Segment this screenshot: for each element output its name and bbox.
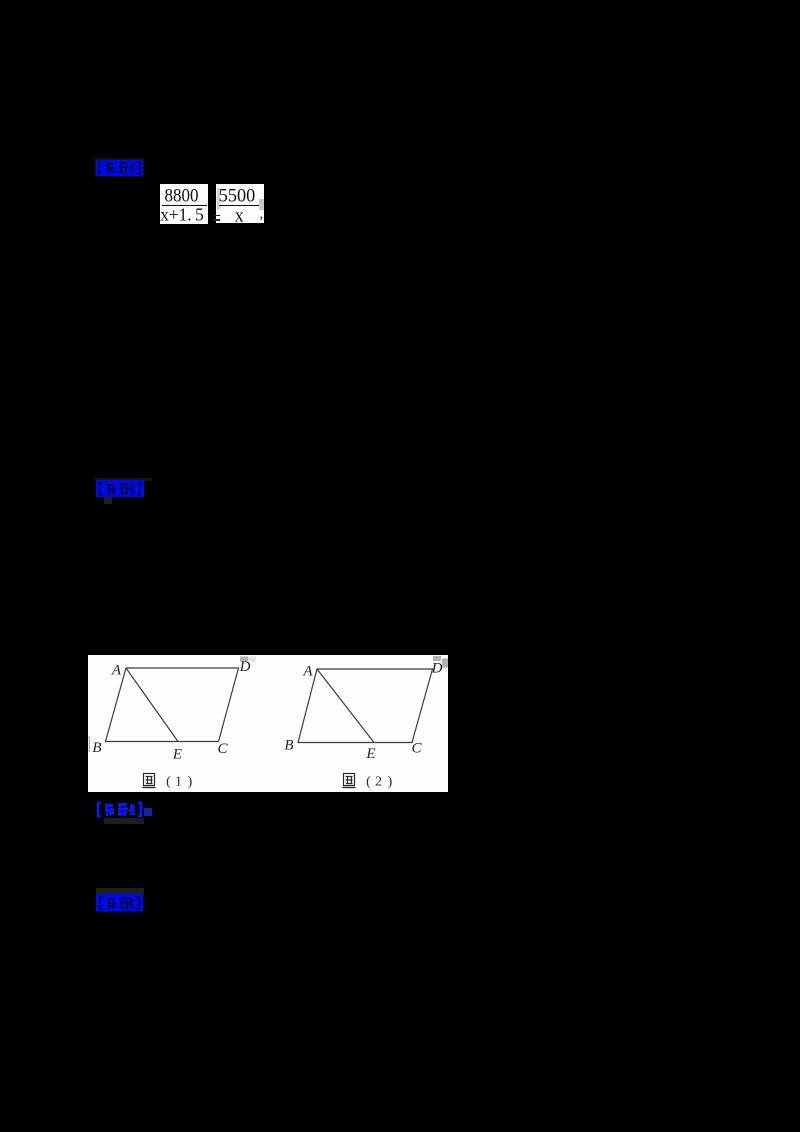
- svg-text:E: E: [365, 746, 375, 762]
- svg-text:2: 2: [375, 775, 382, 790]
- svg-text:1: 1: [175, 775, 182, 790]
- svg-text:A: A: [111, 663, 122, 679]
- svg-text:E: E: [172, 747, 182, 763]
- svg-text:(: (: [366, 775, 371, 790]
- svg-text:): ): [188, 775, 193, 790]
- svg-text:C: C: [217, 741, 228, 757]
- svg-text:): ): [388, 775, 393, 790]
- svg-text:(: (: [166, 775, 171, 790]
- svg-text:A: A: [302, 664, 313, 680]
- svg-text:B: B: [92, 740, 101, 756]
- svg-text:D: D: [431, 661, 443, 677]
- svg-text:B: B: [284, 738, 293, 754]
- svg-text:D: D: [239, 659, 251, 675]
- svg-text:C: C: [411, 741, 422, 757]
